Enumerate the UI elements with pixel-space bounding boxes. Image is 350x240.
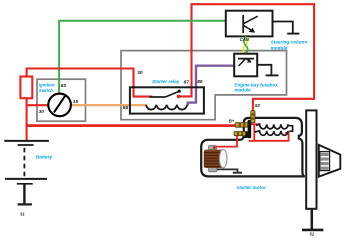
svg-text:50: 50 xyxy=(255,103,260,108)
wire: red battery positive bus (battery + to starter B+) xyxy=(27,124,237,127)
svg-text:B+: B+ xyxy=(229,119,235,124)
ground: armature brush ground inside housing xyxy=(217,169,242,172)
solenoid pull-in winding L2 xyxy=(255,131,288,135)
svg-text:CAN: CAN xyxy=(240,37,250,42)
svg-text:Steering column: Steering column xyxy=(271,39,308,44)
pinion gear and bell housing xyxy=(319,145,341,177)
relay box: starter relay outline xyxy=(130,87,204,113)
svg-text:Ignition: Ignition xyxy=(39,83,55,88)
svg-text:85: 85 xyxy=(197,79,203,85)
terminal stud B+ xyxy=(235,123,247,128)
solenoid contact plunger bar xyxy=(243,120,251,139)
svg-text:Starter relay: Starter relay xyxy=(152,79,180,84)
svg-text:module: module xyxy=(234,88,251,93)
wire: CAN bus twisted pair (yellow/green) xyxy=(243,37,248,54)
svg-text:module: module xyxy=(271,45,288,50)
svg-text:Battery: Battery xyxy=(36,155,53,161)
wire: purple, fusebox output to relay coil 85 xyxy=(188,66,235,106)
svg-text:Switch: Switch xyxy=(39,88,53,93)
wire: red battery vertical (battery + up through fuse to relay feed) xyxy=(26,68,28,141)
relay coil K1 (86-85) xyxy=(146,105,187,110)
junction: red arrow dot at relay 87 contact xyxy=(177,95,181,99)
svg-text:30: 30 xyxy=(137,70,143,76)
solenoid hold-in winding L1 xyxy=(256,124,293,131)
battery B1 xyxy=(4,141,49,184)
svg-text:31: 31 xyxy=(309,232,314,237)
starter motor housing M1 xyxy=(201,118,305,176)
terminal stud 50 xyxy=(251,111,255,123)
armature commutator cylinder xyxy=(204,146,227,172)
module box: engine bay fusebox/relay gray boundary xyxy=(121,51,287,120)
wire: red from fuse to relay 30 xyxy=(26,69,153,97)
transistor symbol inside steering column module xyxy=(243,15,258,33)
ground: starter motor ground 31 xyxy=(302,209,323,230)
ground: battery negative terminal 31 xyxy=(18,184,32,204)
wire: red solenoid 50 feed to windings xyxy=(249,124,289,141)
svg-text:86: 86 xyxy=(123,105,129,111)
svg-text:87: 87 xyxy=(184,79,190,85)
svg-text:50: 50 xyxy=(61,83,67,89)
ground: steering column module ground xyxy=(272,22,299,34)
svg-text:31: 31 xyxy=(20,212,25,217)
drive end bracket (tall rectangle) xyxy=(306,110,316,208)
module box: engine bay fusebox module U2 xyxy=(234,54,257,77)
wire: red from solenoid M terminal to armature brush xyxy=(214,136,237,150)
module box: steering column module U1 xyxy=(226,11,273,37)
module box: ignition switch gray boundary xyxy=(37,79,86,121)
wire: red loop relay 87 up over to starter 50 terminal xyxy=(180,4,315,112)
ignition switch rotary symbol xyxy=(48,94,71,117)
wire: green, ignition 50 to steering column module xyxy=(59,21,227,93)
terminal stud M xyxy=(234,132,246,136)
wire: orange, ignition 15 to relay coil 86 xyxy=(72,104,147,106)
svg-text:starter motor: starter motor xyxy=(237,185,267,190)
wire: red branch to ignition switch 30 xyxy=(26,104,49,106)
ground: engine bay fusebox module ground xyxy=(257,65,278,76)
fuse F1 (main fuse) xyxy=(20,77,32,99)
transistor symbol inside fusebox module xyxy=(238,59,254,66)
relay contact: fixed contact and blade (30-87) xyxy=(150,90,181,97)
svg-text:30: 30 xyxy=(39,109,45,115)
svg-text:15: 15 xyxy=(73,99,79,105)
